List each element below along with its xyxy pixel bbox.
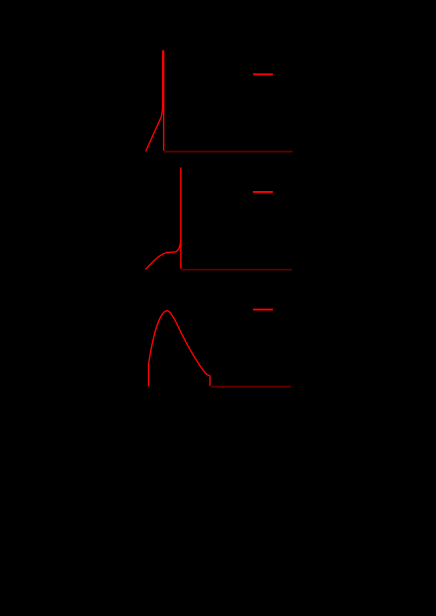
baseline 1 (dim reset line, top subplot): [164, 151, 293, 153]
baseline 3 (dim reset line, bottom subplot): [210, 386, 291, 388]
trace 3 (bottom subplot: bump): [149, 311, 210, 387]
legend line 3 (bottom subplot): [253, 309, 273, 311]
legend line 1 (top subplot): [253, 73, 273, 75]
trace 1 (top subplot: ramp + spike): [146, 51, 164, 152]
baseline 2 (dim reset line, middle subplot): [181, 269, 292, 271]
trace 2 (middle subplot: sigmoid plateau + spike): [146, 168, 181, 270]
legend line 2 (middle subplot): [253, 191, 273, 193]
